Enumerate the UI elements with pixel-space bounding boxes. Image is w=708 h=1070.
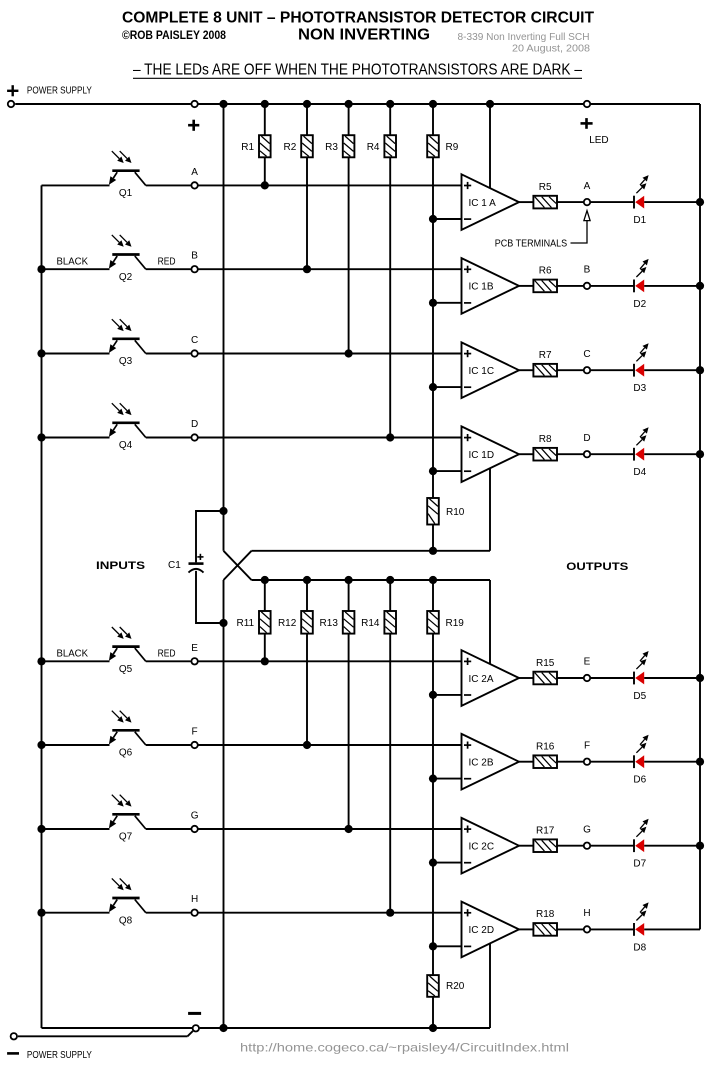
wire R12 top lead <box>306 580 308 611</box>
wire row D terminal to op-amp <box>198 437 461 439</box>
svg-text:R14: R14 <box>361 618 380 629</box>
wire R7 to terminal <box>557 369 583 371</box>
wire row F terminal to op-amp <box>198 744 461 746</box>
resistor R3 <box>343 135 355 157</box>
svg-text:PCB TERMINALS: PCB TERMINALS <box>495 238 568 249</box>
resistor R4 <box>384 135 396 157</box>
svg-text:Q6: Q6 <box>119 748 133 759</box>
svg-text:Q5: Q5 <box>119 664 133 675</box>
wire IC 1B output <box>519 285 533 287</box>
junction R4 to row D <box>386 433 394 441</box>
wire bank2 V+ rail horizontal <box>252 579 491 581</box>
svg-text:R10: R10 <box>446 507 465 518</box>
wire IC inverting stub A <box>433 218 462 220</box>
phototransistor Q5 <box>112 645 139 648</box>
resistor R19 <box>427 611 439 634</box>
wire R13 top lead <box>348 580 350 611</box>
svg-text:R9: R9 <box>446 142 459 153</box>
wire R2 top lead <box>306 104 308 135</box>
wire D3 to right rail <box>644 369 700 371</box>
junction IC 1D inverting input <box>429 467 437 475</box>
svg-text:OUTPUTS: OUTPUTS <box>566 561 628 573</box>
wire D4 to right rail <box>644 453 700 455</box>
terminal LED anode supply <box>584 101 590 107</box>
phototransistor Q7 <box>112 813 139 816</box>
svg-text:IC 1B: IC 1B <box>469 282 494 293</box>
svg-text:A: A <box>191 167 198 178</box>
svg-text:R20: R20 <box>446 981 465 992</box>
wire IC 1D output <box>519 453 533 455</box>
wire R16 to terminal <box>557 761 583 763</box>
wire R17 to terminal <box>557 845 583 847</box>
svg-text:Q7: Q7 <box>119 832 133 843</box>
wire terminal to LED D2 <box>591 285 634 287</box>
wire row H terminal to op-amp <box>198 912 461 914</box>
junction top rail R2 <box>303 100 311 108</box>
wire IC inverting stub F <box>433 778 462 780</box>
junction V+ center rail top <box>219 100 227 108</box>
svg-text:– THE LEDs ARE OFF WHEN THE PH: – THE LEDs ARE OFF WHEN THE PHOTOTRANSIS… <box>133 62 582 79</box>
junction bank2 rail R13 <box>345 576 353 584</box>
wire negative supply lead <box>18 1035 188 1037</box>
wire R14 bottom lead <box>389 634 391 913</box>
terminal V+ PCB <box>191 101 197 107</box>
wire row G terminal to op-amp <box>198 828 461 830</box>
svg-text:D: D <box>583 433 590 444</box>
svg-text:IC 1D: IC 1D <box>469 450 495 461</box>
wire IC inverting stub D <box>433 470 462 472</box>
wire R3 bottom lead <box>348 157 350 353</box>
wire row B emitter side <box>42 268 110 270</box>
svg-text:R1: R1 <box>241 142 254 153</box>
svg-text:IC 1 A: IC 1 A <box>469 198 497 209</box>
svg-text:Q4: Q4 <box>119 440 133 451</box>
wire negative supply jog <box>188 1031 193 1036</box>
LED D8 <box>633 923 635 936</box>
wire C1 bottom lead <box>196 571 224 623</box>
junction C1 top <box>219 507 227 515</box>
svg-text:COMPLETE 8 UNIT – PHOTOTRANSIS: COMPLETE 8 UNIT – PHOTOTRANSISTOR DETECT… <box>122 9 594 26</box>
svg-text:IC 2D: IC 2D <box>469 925 495 936</box>
terminal input E <box>191 658 197 664</box>
phototransistor Q4 <box>112 421 139 424</box>
junction R12 to row F <box>303 741 311 749</box>
junction left rail row D <box>37 433 45 441</box>
minus sign power supply bottom left <box>7 1052 19 1055</box>
wire D2 to right rail <box>644 285 700 287</box>
svg-text:G: G <box>583 824 591 835</box>
wire IC inverting stub E <box>433 694 462 696</box>
label C1 polarity plus <box>197 556 203 558</box>
wire R1 bottom lead <box>264 157 266 185</box>
wire row B collector to terminal <box>146 268 191 270</box>
junction IC 2A inverting input <box>429 691 437 699</box>
resistor R5 <box>533 196 557 209</box>
wire bank2 V+ rail drop to IC 2A <box>489 580 491 664</box>
wire row H collector to terminal <box>146 912 191 914</box>
junction R3 to row C <box>345 349 353 357</box>
wire bottom rail right <box>200 1027 490 1029</box>
resistor R9 <box>427 135 439 157</box>
wire row G emitter side <box>42 828 110 830</box>
warning underline <box>133 77 582 79</box>
svg-text:D5: D5 <box>633 691 646 702</box>
wire row E emitter side <box>42 660 110 662</box>
op-amp IC 2A <box>462 650 520 706</box>
terminal input D <box>191 434 197 440</box>
junction bank2 rail R14 <box>386 576 394 584</box>
terminal power supply negative <box>11 1033 17 1039</box>
terminal output E <box>584 675 590 681</box>
wire IC 2A output <box>519 677 533 679</box>
plus sign V+ rail <box>188 124 199 127</box>
wire crossover V- to center rail <box>224 551 252 580</box>
junction R1 to row A <box>261 181 269 189</box>
svg-text:B: B <box>191 251 198 262</box>
wire R2 bottom lead <box>306 157 308 269</box>
svg-text:D3: D3 <box>633 383 646 394</box>
LED D7 <box>633 839 635 852</box>
junction left rail row H <box>37 909 45 917</box>
junction IC 2D inverting input <box>429 942 437 950</box>
wire row H emitter side <box>42 912 110 914</box>
svg-text:8-339 Non Inverting Full SCH: 8-339 Non Inverting Full SCH <box>458 32 590 43</box>
junction top rail R4 <box>386 100 394 108</box>
junction R11 to row E <box>261 657 269 665</box>
svg-text:D6: D6 <box>633 775 646 786</box>
svg-text:RED: RED <box>158 649 176 660</box>
wire IC 2C output <box>519 845 533 847</box>
svg-text:E: E <box>191 643 198 654</box>
svg-text:BLACK: BLACK <box>57 649 89 660</box>
svg-text:Q1: Q1 <box>119 188 133 199</box>
wire bottom rail left <box>42 1027 193 1029</box>
callout line PCB terminals <box>571 221 588 243</box>
wire R4 top lead <box>389 104 391 135</box>
minus sign V- rail <box>188 1012 201 1015</box>
wire C1 top lead <box>196 511 224 562</box>
junction R13 to row G <box>345 825 353 833</box>
svg-text:R7: R7 <box>539 350 552 361</box>
op-amp IC 2C <box>462 818 520 874</box>
junction left rail row F <box>37 741 45 749</box>
svg-text:R13: R13 <box>320 618 339 629</box>
terminal V- PCB <box>193 1025 199 1031</box>
wire terminal to LED D6 <box>591 761 634 763</box>
wire row A collector to terminal <box>146 184 191 186</box>
terminal output A <box>584 199 590 205</box>
junction right rail row E <box>696 674 704 682</box>
svg-text:D: D <box>191 419 198 430</box>
junction right rail row A <box>696 198 704 206</box>
terminal input C <box>191 350 197 356</box>
terminal output D <box>584 451 590 457</box>
wire inverting rail bank1 <box>432 157 434 498</box>
terminal output B <box>584 283 590 289</box>
wire V- line to IC 1D <box>252 550 491 552</box>
LED D1 <box>633 196 635 209</box>
wire row D collector to terminal <box>146 437 191 439</box>
svg-text:R8: R8 <box>539 434 552 445</box>
op-amp IC 2D <box>462 902 520 958</box>
wire R8 to terminal <box>557 453 583 455</box>
svg-text:http://home.cogeco.ca/~rpaisle: http://home.cogeco.ca/~rpaisley4/Circuit… <box>240 1040 569 1054</box>
terminal power supply positive <box>8 101 14 107</box>
wire D5 to right rail <box>644 677 700 679</box>
junction right rail row F <box>696 758 704 766</box>
svg-text:D4: D4 <box>633 467 646 478</box>
wire R5 to terminal <box>557 201 583 203</box>
wire R11 bottom lead <box>264 634 266 662</box>
wire IC 2B output <box>519 761 533 763</box>
svg-text:RED: RED <box>158 256 176 267</box>
junction left rail row C <box>37 349 45 357</box>
wire terminal to LED D7 <box>591 845 634 847</box>
svg-text:INPUTS: INPUTS <box>96 560 145 572</box>
junction V+ drop top <box>486 100 494 108</box>
terminal input B <box>191 266 197 272</box>
wire row F emitter side <box>42 744 110 746</box>
svg-text:R3: R3 <box>325 142 338 153</box>
wire IC 1 A output <box>519 201 533 203</box>
terminal input G <box>191 826 197 832</box>
resistor R17 <box>533 839 557 852</box>
svg-text:Q3: Q3 <box>119 356 133 367</box>
resistor R8 <box>533 448 557 461</box>
LED D4 <box>633 448 635 461</box>
svg-text:20 August, 2008: 20 August, 2008 <box>512 43 590 54</box>
resistor R14 <box>384 611 396 634</box>
svg-text:NON INVERTING: NON INVERTING <box>298 27 430 44</box>
wire row A emitter side <box>42 184 110 186</box>
junction bank2 rail R12 <box>303 576 311 584</box>
resistor R13 <box>343 611 355 634</box>
svg-text:Q2: Q2 <box>119 272 133 283</box>
svg-text:C1: C1 <box>168 560 181 571</box>
junction left rail row B <box>37 265 45 273</box>
wire terminal to LED D4 <box>591 453 634 455</box>
LED D6 <box>633 755 635 768</box>
resistor R7 <box>533 364 557 377</box>
op-amp IC 1D <box>462 426 520 482</box>
op-amp IC 1 A <box>462 174 520 230</box>
svg-text:©ROB PAISLEY 2008: ©ROB PAISLEY 2008 <box>122 28 226 42</box>
svg-text:IC 2C: IC 2C <box>469 842 495 853</box>
junction top rail R9 <box>429 100 437 108</box>
wire R10 bottom lead <box>432 525 434 551</box>
junction bottom rail center <box>219 1024 227 1032</box>
resistor R12 <box>301 611 313 634</box>
junction top rail R3 <box>345 100 353 108</box>
wire top rail left <box>15 103 191 105</box>
svg-text:R4: R4 <box>367 142 380 153</box>
terminal output F <box>584 759 590 765</box>
callout arrow PCB terminals <box>584 211 590 221</box>
terminal input A <box>191 182 197 188</box>
svg-text:D7: D7 <box>633 859 646 870</box>
LED D2 <box>633 280 635 293</box>
svg-text:C: C <box>191 335 198 346</box>
svg-text:IC 1C: IC 1C <box>469 366 495 377</box>
junction right rail row D <box>696 450 704 458</box>
wire top rail middle <box>198 103 583 105</box>
resistor R6 <box>533 280 557 293</box>
junction IC 2B inverting input <box>429 775 437 783</box>
resistor R2 <box>301 135 313 157</box>
wire R6 to terminal <box>557 285 583 287</box>
resistor R1 <box>259 135 271 157</box>
svg-text:A: A <box>584 181 591 192</box>
phototransistor Q6 <box>112 729 139 732</box>
junction IC 1B inverting input <box>429 299 437 307</box>
wire terminal to LED D1 <box>591 201 634 203</box>
svg-text:IC 2B: IC 2B <box>469 758 494 769</box>
junction C1 bottom <box>219 619 227 627</box>
svg-text:LED: LED <box>589 135 608 146</box>
wire R20 bottom lead <box>432 997 434 1028</box>
wire row F collector to terminal <box>146 744 191 746</box>
svg-text:BLACK: BLACK <box>57 256 89 267</box>
terminal output G <box>584 843 590 849</box>
junction IC 1C inverting input <box>429 383 437 391</box>
wire row C emitter side <box>42 353 110 355</box>
phototransistor Q8 <box>112 897 139 900</box>
svg-text:R18: R18 <box>536 909 555 920</box>
wire row C terminal to op-amp <box>198 353 461 355</box>
wire row E collector to terminal <box>146 660 191 662</box>
wire R1 top lead <box>264 104 266 135</box>
wire inverting rail bank2 <box>432 634 434 976</box>
wire left input rail <box>41 185 43 1028</box>
wire V+ drop to IC 1A <box>489 104 491 188</box>
wire R18 to terminal <box>557 928 583 930</box>
wire R19 top lead <box>432 580 434 611</box>
svg-text:C: C <box>583 349 590 360</box>
svg-text:B: B <box>584 265 591 276</box>
svg-text:R12: R12 <box>278 618 297 629</box>
phototransistor Q1 <box>112 169 139 172</box>
wire row D emitter side <box>42 437 110 439</box>
wire terminal to LED D5 <box>591 677 634 679</box>
wire row B terminal to op-amp <box>198 268 461 270</box>
svg-text:D2: D2 <box>633 299 646 310</box>
junction R2 to row B <box>303 265 311 273</box>
resistor R10 <box>427 498 439 525</box>
junction IC 2C inverting input <box>429 859 437 867</box>
wire crossover V+ to bank2 rail <box>224 551 252 580</box>
svg-text:Q8: Q8 <box>119 915 133 926</box>
junction left rail row E <box>37 657 45 665</box>
svg-text:IC 2A: IC 2A <box>469 674 494 685</box>
terminal output C <box>584 367 590 373</box>
op-amp IC 1C <box>462 342 520 398</box>
wire IC inverting stub H <box>433 945 462 947</box>
wire R3 top lead <box>348 104 350 135</box>
wire R13 bottom lead <box>348 634 350 829</box>
wire row A terminal to op-amp <box>198 184 461 186</box>
wire V- riser IC 2D <box>489 943 491 1028</box>
resistor R18 <box>533 923 557 936</box>
resistor R20 <box>427 975 439 997</box>
LED D5 <box>633 672 635 685</box>
wire V- riser to IC 1D <box>489 468 491 551</box>
svg-text:E: E <box>584 657 591 668</box>
svg-text:D1: D1 <box>633 215 646 226</box>
wire R9 top lead <box>432 104 434 135</box>
plus sign power supply top left <box>7 90 18 92</box>
phototransistor Q3 <box>112 337 139 340</box>
junction right rail row B <box>696 282 704 290</box>
svg-text:H: H <box>191 894 198 905</box>
junction right rail row C <box>696 366 704 374</box>
svg-text:R5: R5 <box>539 182 552 193</box>
wire IC inverting stub B <box>433 302 462 304</box>
wire R4 bottom lead <box>389 157 391 437</box>
wire D1 to right rail <box>644 201 700 203</box>
terminal input F <box>191 742 197 748</box>
wire V- center rail lower <box>223 580 225 1028</box>
wire V+ center rail upper <box>223 104 225 551</box>
junction top rail R1 <box>261 100 269 108</box>
wire IC inverting stub G <box>433 862 462 864</box>
wire terminal to LED D8 <box>591 928 634 930</box>
svg-text:R17: R17 <box>536 826 555 837</box>
phototransistor Q2 <box>112 253 139 256</box>
svg-text:G: G <box>191 811 199 822</box>
junction R10 to V- line <box>429 547 437 555</box>
wire D7 to right rail <box>644 845 700 847</box>
wire IC 2D output <box>519 928 533 930</box>
resistor R11 <box>259 611 271 634</box>
wire R11 top lead <box>264 580 266 611</box>
svg-text:R6: R6 <box>539 266 552 277</box>
junction right rail row G <box>696 842 704 850</box>
wire IC inverting stub C <box>433 386 462 388</box>
wire row G collector to terminal <box>146 828 191 830</box>
svg-text:H: H <box>583 908 590 919</box>
svg-text:R15: R15 <box>536 658 555 669</box>
junction IC 1A inverting input <box>429 215 437 223</box>
plus sign LED supply <box>581 122 593 125</box>
terminal output H <box>584 926 590 932</box>
wire row E terminal to op-amp <box>198 660 461 662</box>
svg-text:R16: R16 <box>536 742 555 753</box>
junction R14 to row H <box>386 909 394 917</box>
wire D6 to right rail <box>644 761 700 763</box>
wire right rail <box>699 104 701 929</box>
junction left rail row G <box>37 825 45 833</box>
op-amp IC 2B <box>462 734 520 790</box>
svg-text:R2: R2 <box>284 142 297 153</box>
terminal input H <box>191 910 197 916</box>
resistor R15 <box>533 672 557 685</box>
junction R20 to bottom rail <box>429 1024 437 1032</box>
wire R12 bottom lead <box>306 634 308 745</box>
resistor R16 <box>533 755 557 768</box>
op-amp IC 1B <box>462 258 520 314</box>
svg-text:POWER SUPPLY: POWER SUPPLY <box>27 86 92 97</box>
wire terminal to LED D3 <box>591 369 634 371</box>
wire top rail right <box>591 103 700 105</box>
junction bank2 rail R19 <box>429 576 437 584</box>
capacitor C1 <box>189 562 204 565</box>
svg-text:D8: D8 <box>633 942 646 953</box>
wire D8 to right rail <box>644 928 700 930</box>
wire R14 top lead <box>389 580 391 611</box>
svg-text:R19: R19 <box>446 618 465 629</box>
junction bank2 rail R11 <box>261 576 269 584</box>
wire row C collector to terminal <box>146 353 191 355</box>
